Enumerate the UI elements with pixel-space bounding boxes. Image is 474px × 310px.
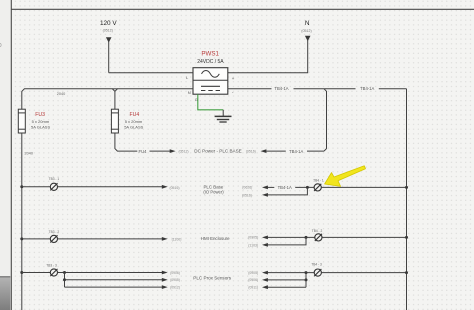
svg-text:PLC Prox Sensors: PLC Prox Sensors — [193, 276, 231, 281]
svg-text:TB4-1A: TB4-1A — [360, 86, 374, 91]
svg-text:(0911): (0911) — [248, 286, 258, 290]
svg-text:5A GLASS: 5A GLASS — [124, 125, 143, 130]
wire bus to TB3-1 — [22, 186, 51, 188]
svg-text:(1100): (1100) — [172, 237, 182, 241]
svg-text:TB4 - 2: TB4 - 2 — [312, 229, 323, 233]
wire TB3-3 lines — [58, 272, 163, 274]
svg-text:(0512): (0512) — [178, 149, 188, 153]
scrollbar block bottom-left — [0, 277, 10, 310]
wire drop from TB4-1A bus to row1 — [324, 89, 327, 151]
svg-text:TB4 - 3: TB4 - 3 — [311, 262, 322, 266]
wire PE green from G pin — [198, 94, 223, 110]
wire N distribution to fuses — [22, 89, 193, 109]
svg-text:(0905): (0905) — [248, 271, 258, 275]
svg-text:TB3 - 3: TB3 - 3 — [46, 263, 57, 267]
svg-text:5 x 20mm: 5 x 20mm — [125, 119, 143, 124]
svg-text:+: + — [232, 76, 235, 81]
svg-text:TB4 - 1: TB4 - 1 — [313, 179, 324, 183]
svg-text:(0906): (0906) — [170, 271, 180, 275]
svg-text:TB3 - 2: TB3 - 2 — [49, 230, 60, 234]
svg-text:24VDC / 5A: 24VDC / 5A — [197, 59, 224, 65]
wire TB4-1 to right bus — [321, 186, 406, 188]
svg-text:FU4: FU4 — [139, 149, 148, 154]
svg-text:N: N — [188, 90, 191, 95]
terminal TB4-3 — [311, 262, 322, 276]
left bus junction row A — [20, 185, 23, 188]
fuse FU3 — [18, 91, 115, 133]
svg-text:(0516): (0516) — [169, 186, 179, 190]
svg-text:(0512): (0512) — [301, 29, 311, 33]
sheet border horizontal line — [11, 8, 474, 10]
sheet border vertical line — [10, 0, 12, 310]
wire PWS1 minus to TB4 bus — [228, 88, 272, 90]
svg-text:(IO Power): (IO Power) — [203, 189, 224, 194]
svg-text:PWS1: PWS1 — [201, 51, 219, 58]
svg-text:TB4-1A: TB4-1A — [289, 149, 303, 154]
wire left bus from FU3 down — [21, 133, 23, 310]
svg-text:2040: 2040 — [57, 92, 65, 96]
svg-text:(0906): (0906) — [248, 278, 258, 282]
svg-text:HMI Enclosure: HMI Enclosure — [201, 236, 230, 241]
wire 120V to PWS1 L — [109, 72, 193, 74]
svg-text:120 V: 120 V — [100, 20, 117, 27]
terminal TB4-1 — [313, 179, 324, 191]
terminal TB3-2 — [49, 230, 60, 243]
node 120V arrow — [106, 37, 112, 42]
svg-text:TB4-1A: TB4-1A — [274, 86, 288, 91]
row1 arrow right — [150, 150, 171, 152]
svg-text:DC Power - PLC BASE: DC Power - PLC BASE — [194, 149, 241, 154]
terminal TB3-1 — [49, 177, 60, 190]
node N arrow — [305, 36, 311, 41]
wire TB3-1 to arrow — [58, 186, 163, 188]
fuse FU4 — [111, 91, 118, 133]
power supply PWS1 body — [193, 68, 228, 95]
terminal TB3-3 — [46, 263, 57, 276]
svg-text:FU4: FU4 — [130, 112, 140, 118]
svg-text:(0512): (0512) — [103, 29, 113, 33]
svg-text:(1103): (1103) — [248, 243, 258, 247]
wire FU4 down to row1 — [115, 133, 137, 151]
svg-text:FU3: FU3 — [35, 112, 45, 118]
svg-text:(0905): (0905) — [248, 236, 258, 240]
ground symbol — [215, 110, 232, 122]
svg-text:5A GLASS: 5A GLASS — [31, 125, 50, 130]
svg-text:TB3 - 1: TB3 - 1 — [49, 177, 60, 181]
annotation yellow arrow — [325, 166, 366, 187]
junction node — [306, 186, 309, 189]
row1 arrow left from TB4-1A — [261, 149, 267, 153]
wire right bus down — [406, 89, 408, 310]
terminal TB4-2 — [312, 229, 323, 241]
svg-text:(0516): (0516) — [242, 193, 252, 197]
svg-text:N: N — [305, 20, 310, 27]
wire 120V down — [108, 42, 110, 73]
svg-text:(0516): (0516) — [246, 149, 256, 153]
svg-text:(0626): (0626) — [242, 186, 252, 190]
wire branch row3 second line — [267, 237, 306, 245]
svg-text:2040: 2040 — [25, 152, 33, 156]
wire N down and to PWS1 + — [228, 40, 308, 73]
wire branch row2 second line — [267, 187, 307, 195]
left bus junction row B — [20, 237, 23, 240]
wire branch row4 lines 2,3 — [305, 273, 307, 288]
svg-text:(0912): (0912) — [170, 286, 180, 290]
svg-text:5 x 20mm: 5 x 20mm — [32, 119, 50, 124]
svg-text:TB4-1A: TB4-1A — [278, 185, 292, 190]
svg-text:(0905): (0905) — [170, 278, 180, 282]
svg-text:0: 0 — [0, 43, 2, 49]
left bus junction row C — [20, 271, 23, 274]
